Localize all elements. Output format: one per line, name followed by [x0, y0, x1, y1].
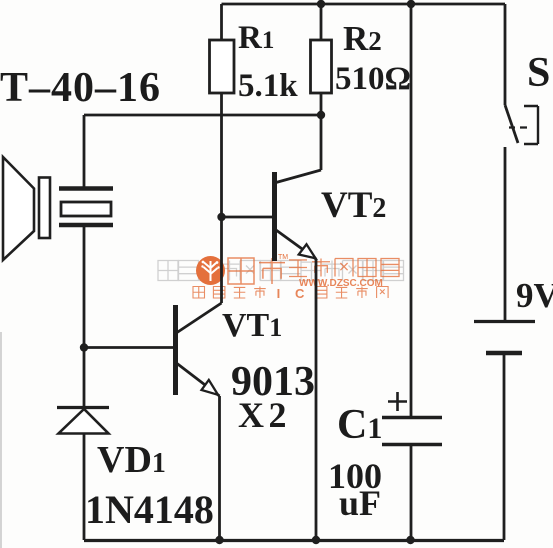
node dot VT1 emitter rail: [215, 536, 223, 544]
switch S: [505, 4, 538, 321]
wire top rail: [222, 3, 506, 6]
svg-text:R1: R1: [238, 20, 274, 56]
svg-text:VT2: VT2: [321, 185, 386, 226]
svg-text:C: C: [295, 286, 305, 301]
wire VT2 base branch: [222, 216, 273, 219]
transducer bottom plate: [59, 223, 113, 228]
svg-text:X2: X2: [238, 395, 291, 435]
node dot VT2 base branch: [217, 213, 225, 221]
transducer top plate: [59, 186, 113, 191]
svg-text:C1: C1: [337, 402, 382, 448]
svg-text:5.1k: 5.1k: [238, 68, 298, 104]
watermark slogan: [193, 286, 388, 301]
wire R1 to VT1 collector node: [220, 93, 223, 303]
capacitor C1: [382, 4, 442, 540]
watermark market text: [289, 259, 399, 277]
wire node row (speaker to R2): [84, 114, 321, 117]
node dot C1 bottom: [406, 536, 414, 544]
node dot VT2 emitter rail: [312, 536, 320, 544]
svg-text:S: S: [527, 50, 550, 96]
svg-text:T–40–16: T–40–16: [0, 65, 161, 111]
transducer driver rect: [39, 178, 50, 239]
wire VT2 emitter to rail: [315, 259, 318, 540]
node dot R2 bottom: [317, 111, 325, 119]
node dot R2 top: [317, 0, 325, 8]
svg-text:uF: uF: [339, 483, 381, 523]
watermark weiku big characters: [228, 254, 288, 284]
battery GB: [474, 322, 535, 541]
watermark weiku logo: [196, 256, 225, 285]
svg-text:R2: R2: [343, 19, 382, 58]
diode VD1: [57, 408, 109, 434]
svg-text:510Ω: 510Ω: [335, 61, 411, 97]
svg-text:VT1: VT1: [222, 307, 282, 344]
resistor R1: [210, 4, 235, 93]
transducer BQ horn: [3, 157, 34, 260]
wire bottom rail: [84, 539, 504, 542]
svg-text:I: I: [277, 286, 281, 301]
wire speaker top lead: [83, 115, 86, 187]
transistor VT1: [84, 303, 222, 396]
wire VT1 emitter to rail: [218, 396, 221, 540]
watermark gray company text: [158, 261, 404, 281]
resistor R2: [311, 4, 332, 116]
svg-text:9V: 9V: [516, 276, 553, 315]
wire speaker bottom lead: [83, 227, 86, 406]
transducer crystal: [61, 202, 111, 216]
svg-text:VD1: VD1: [97, 439, 166, 481]
scan edge artifact: [0, 332, 2, 548]
svg-text:1N4148: 1N4148: [85, 487, 214, 532]
C1 plus sign: [388, 392, 407, 411]
node dot C1 top: [407, 0, 415, 8]
wire VD1 to bottom rail: [83, 434, 86, 541]
transistor VT2: [275, 115, 322, 261]
svg-text:TM: TM: [278, 254, 288, 261]
node dot VT1 base: [80, 343, 88, 351]
